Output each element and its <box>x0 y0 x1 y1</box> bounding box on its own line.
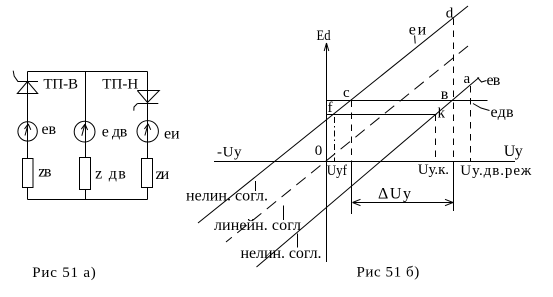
line ev characteristic <box>257 78 480 268</box>
source ei circle <box>137 121 158 142</box>
svg-text:ев: ев <box>487 72 501 89</box>
leader to ev line <box>478 78 487 83</box>
svg-text:Uу.к.: Uу.к. <box>418 162 449 178</box>
axis Ed arrowhead <box>324 43 329 51</box>
svg-text:ТП-В: ТП-В <box>43 77 78 93</box>
source ev circle <box>18 122 37 141</box>
wire right branch <box>147 72 149 200</box>
guide Uyf (dash-dot vertical) <box>334 117 336 162</box>
svg-text:k: k <box>438 106 446 122</box>
thyristor VS2 gate <box>134 104 138 111</box>
svg-text:ТП-Н: ТП-Н <box>102 77 138 93</box>
svg-text:Рис 51 б): Рис 51 б) <box>357 265 420 281</box>
wire middle branch <box>85 72 87 200</box>
source edv arrow <box>81 124 87 136</box>
thyristor VS1 triangle <box>17 82 37 94</box>
thyristor VS1 (TP-V group, cathode bar) <box>18 81 39 83</box>
axis Ed (vertical) <box>326 44 328 262</box>
resistor zi <box>142 159 153 188</box>
guide k vertical (dashed) <box>435 115 437 162</box>
svg-text:zи: zи <box>156 166 170 183</box>
marker delta-Uy left bound <box>351 162 353 215</box>
axis Uy (horizontal) <box>214 161 515 163</box>
line ei characteristic <box>198 6 468 223</box>
svg-text:c: c <box>343 85 350 101</box>
svg-text:е дв: е дв <box>102 123 128 140</box>
line edv level (horizontal c-v) <box>327 100 488 102</box>
svg-text:линейн. согл: линейн. согл <box>214 217 301 234</box>
thyristor VS2 cathode bar <box>137 103 158 105</box>
resistor zdv <box>80 158 91 190</box>
line f-k (horizontal) <box>327 114 437 116</box>
resistor zv <box>23 159 34 188</box>
svg-text:а: а <box>464 71 471 87</box>
svg-text:еи: еи <box>409 22 427 39</box>
guide d vertical (dashed) <box>453 19 455 162</box>
marker delta-Uy right bound <box>453 162 455 212</box>
tick to ev line lower <box>297 234 299 248</box>
svg-text:Uу: Uу <box>504 143 523 160</box>
dimension arrow delta-Uy <box>353 199 454 205</box>
guide c vertical (dashed) <box>351 101 353 162</box>
source ei arrow <box>144 124 150 136</box>
svg-text:z дв: z дв <box>95 165 126 182</box>
svg-text:Uу.дв.реж: Uу.дв.реж <box>460 163 532 179</box>
svg-text:ΔUу: ΔUу <box>378 185 411 202</box>
svg-text:d: d <box>446 6 454 22</box>
wire left branch <box>27 72 29 200</box>
thyristor VS1 gate <box>13 71 18 82</box>
leader to edv level line <box>473 104 490 111</box>
svg-text:ев: ев <box>42 121 57 138</box>
svg-text:едв: едв <box>491 104 514 121</box>
svg-text:в: в <box>441 86 449 103</box>
svg-text:Ed: Ed <box>317 28 331 44</box>
leader tick to ei line <box>414 36 417 44</box>
svg-text:Рис 51 а): Рис 51 а) <box>32 265 96 281</box>
svg-text:нелин. согл.: нелин. согл. <box>241 245 322 262</box>
thyristor VS2 (TP-N group, triangle) <box>137 91 159 103</box>
svg-text:-Uу: -Uу <box>217 145 242 161</box>
line edv characteristic (dashed, linear matching) <box>226 46 468 242</box>
svg-text:f: f <box>328 100 333 116</box>
tick to edv line lower <box>283 206 285 221</box>
source ev arrow <box>25 124 31 136</box>
wire top bus (circuit a) <box>28 71 148 73</box>
wire bottom bus (circuit a) <box>28 199 148 201</box>
svg-text:0: 0 <box>315 143 323 159</box>
guide a vertical (dashed) <box>470 86 472 162</box>
source edv circle <box>74 121 95 142</box>
svg-text:еи: еи <box>164 125 180 142</box>
tick to ei line lower <box>255 181 257 191</box>
svg-text:zв: zв <box>38 163 52 180</box>
svg-text:Uуf: Uуf <box>327 163 347 179</box>
